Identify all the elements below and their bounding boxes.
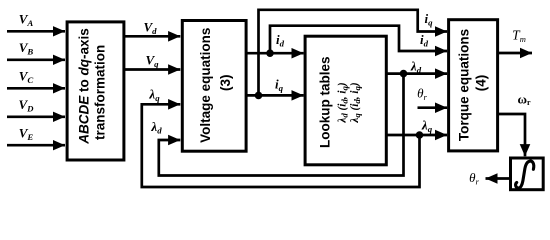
wire i_d to lookup [247,52,304,55]
wire theta_r input stub [418,106,448,109]
wire lambda_q feedback [142,104,420,187]
wire omega_r to integrator [499,114,525,156]
wire Tm output [499,52,532,55]
wire Vq [124,68,180,71]
wire i_d to torque [270,26,447,54]
node lambda_d junction [400,70,408,78]
wire VE input [7,144,65,147]
node lambda_q junction [416,131,424,139]
block Torque equations (4) [449,20,498,151]
wire lambda_d to torque [387,72,447,75]
node i_q junction [255,92,263,100]
wire lambda_d feedback [159,74,404,176]
svg-text:Lookup tables: Lookup tables [318,56,333,148]
wire VB input [7,58,65,61]
wire lambda_q to torque [387,134,447,137]
svg-text:Torque equations: Torque equations [457,29,472,141]
wire VC input [7,87,65,90]
svg-text:Voltage equations: Voltage equations [198,28,213,143]
block Lookup tables [305,36,386,165]
block integrator [511,158,544,190]
block Voltage equations (3) [182,21,246,152]
wire i_q to lookup [247,94,304,97]
svg-text:(4): (4) [474,75,489,92]
svg-text:transformation: transformation [93,45,108,140]
svg-text:(3): (3) [218,74,233,91]
block ABCDE to dq-axis transformation [67,22,124,160]
wire VD input [7,115,65,118]
svg-text:ABCDE to dq-axis: ABCDE to dq-axis [77,28,92,145]
wire theta_r from integrator [486,177,510,180]
wire Vd [124,35,180,38]
wire i_q to torque [259,10,448,96]
node i_d junction [266,49,274,57]
wire VA input [7,30,65,33]
